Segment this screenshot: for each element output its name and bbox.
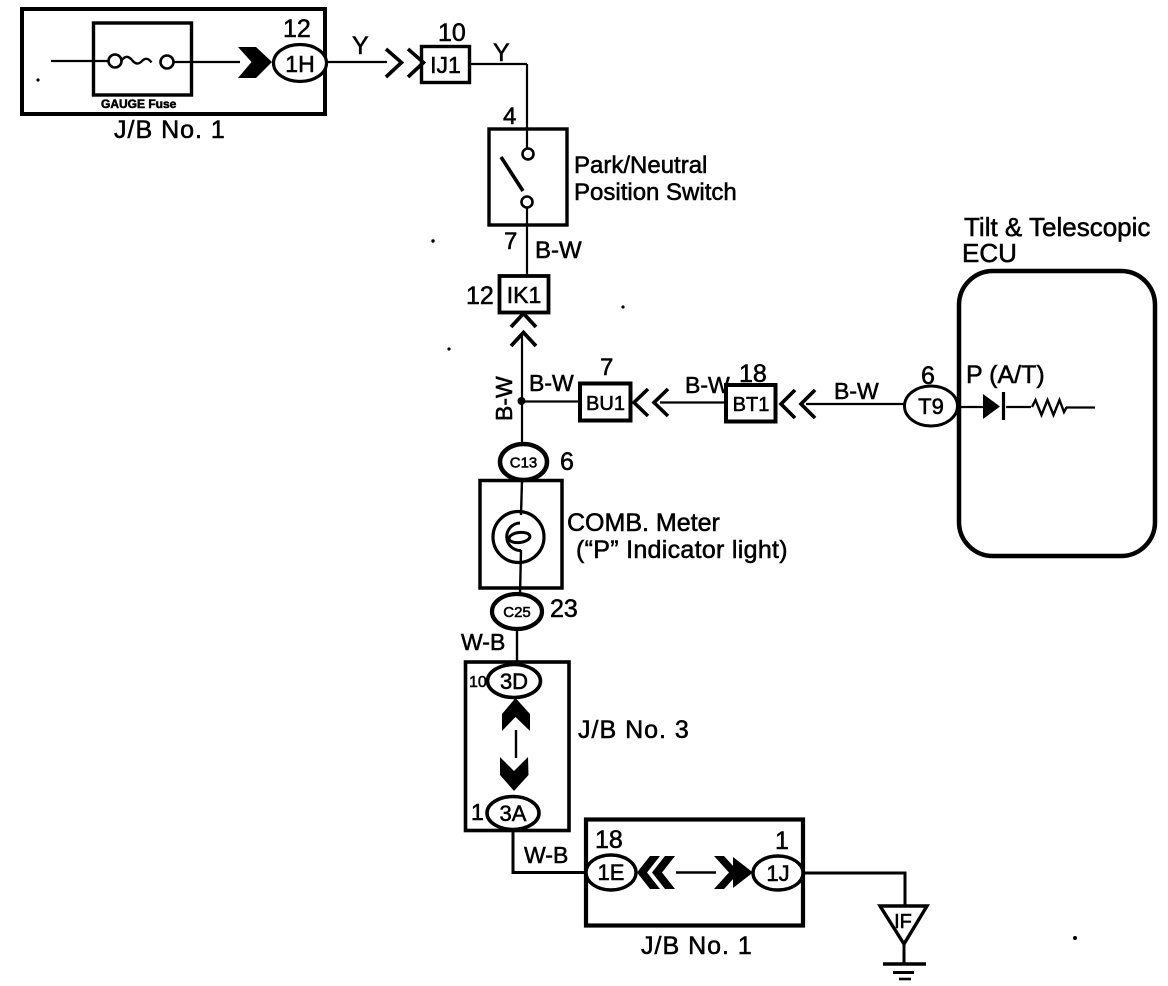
svg-text:23: 23 <box>550 595 578 623</box>
connector IK1 <box>500 276 549 313</box>
svg-text:12: 12 <box>283 15 311 43</box>
wire 1E to 1J <box>676 871 716 874</box>
ECU Tilt & Telescopic box <box>959 271 1155 556</box>
svg-text:P (A/T): P (A/T) <box>966 361 1045 389</box>
wire into bulb <box>521 480 522 515</box>
svg-text:10: 10 <box>438 19 466 47</box>
svg-text:W-B: W-B <box>524 842 568 868</box>
wire IJ1 to corner <box>470 63 527 65</box>
arrow down (inside J/B No.3) <box>500 757 529 791</box>
ground bars <box>883 962 926 966</box>
wire into fuse <box>51 60 109 62</box>
svg-text:C13: C13 <box>510 455 538 472</box>
svg-text:(“P” Indicator light): (“P” Indicator light) <box>576 536 788 564</box>
wire C25 to 3D <box>516 629 518 666</box>
svg-text:1E: 1E <box>598 860 625 885</box>
junction block J/B No. 1 (bottom) <box>586 820 803 926</box>
connector 1J <box>753 856 803 890</box>
solid arrow right (to 1J) <box>714 856 739 889</box>
connector C13 <box>500 444 547 480</box>
wire fuse to arrow <box>174 61 241 63</box>
connector 1H <box>274 45 327 82</box>
resistor (in ECU) <box>1032 400 1067 415</box>
connector BU1 <box>580 384 631 421</box>
svg-text:J/B No. 1: J/B No. 1 <box>641 932 753 960</box>
connector T9 <box>905 386 958 426</box>
svg-text:4: 4 <box>503 103 516 130</box>
wire resistor end <box>1066 406 1095 408</box>
diode (in ECU) <box>983 394 1000 419</box>
connector IJ1 <box>422 47 470 83</box>
svg-text:Y: Y <box>352 32 369 60</box>
junction block J/B No. 3 <box>466 662 570 831</box>
svg-text:1: 1 <box>471 799 484 825</box>
solid double chevron left (after 1E) <box>637 856 660 889</box>
connector BT1 <box>726 385 776 422</box>
svg-text:Park/Neutral: Park/Neutral <box>574 152 707 179</box>
svg-text:B-W: B-W <box>535 237 582 264</box>
svg-text:10: 10 <box>469 674 487 691</box>
wire 1H to chevrons, label Y <box>327 61 387 63</box>
wire 3A to J/B No.1, label W-B <box>513 830 586 873</box>
chevron pair (right of BU1) <box>634 389 668 416</box>
svg-text:J/B No. 1: J/B No. 1 <box>114 116 226 144</box>
connector C25 <box>492 594 542 629</box>
chevron pair (to IJ1) <box>386 49 424 77</box>
svg-text:7: 7 <box>504 228 517 255</box>
wire switch to IK1, label B-W <box>526 208 528 276</box>
park/neutral position switch box <box>489 129 567 225</box>
svg-text:BU1: BU1 <box>586 393 625 415</box>
wire diode to resistor <box>1006 406 1031 408</box>
svg-text:IF: IF <box>894 911 912 933</box>
svg-text:T9: T9 <box>918 394 944 419</box>
wire between arrows <box>515 730 517 758</box>
ground connector IF <box>880 906 927 944</box>
svg-text:B-W: B-W <box>529 370 574 396</box>
node junction <box>518 397 526 405</box>
wire bulb to C25 <box>520 550 521 595</box>
svg-text:1: 1 <box>775 827 789 855</box>
connector 3D <box>488 665 541 698</box>
switch bottom contact <box>522 197 533 208</box>
COMB. meter box <box>480 481 562 589</box>
svg-text:J/B No. 3: J/B No. 3 <box>578 716 690 744</box>
arrow up (inside J/B No.3) <box>502 698 530 731</box>
svg-text:B-W: B-W <box>491 376 517 421</box>
wire T9 to diode <box>957 406 983 408</box>
svg-text:6: 6 <box>560 448 574 476</box>
svg-text:BT1: BT1 <box>733 394 770 416</box>
connector 1E <box>586 855 636 890</box>
svg-text:IJ1: IJ1 <box>430 52 461 78</box>
scan specks <box>36 78 39 81</box>
switch lever <box>501 157 523 191</box>
svg-text:C25: C25 <box>503 604 531 621</box>
svg-text:1H: 1H <box>285 51 314 77</box>
switch top contact <box>523 149 534 160</box>
svg-text:COMB. Meter: COMB. Meter <box>567 509 720 537</box>
svg-text:B-W: B-W <box>685 372 730 398</box>
connector 3A <box>487 797 539 830</box>
svg-text:W-B: W-B <box>461 629 505 655</box>
svg-text:18: 18 <box>595 826 623 854</box>
svg-text:ECU: ECU <box>962 238 1017 268</box>
wire down to switch <box>526 64 528 149</box>
wire junction to BU1 <box>521 400 580 402</box>
indicator bulb (P) <box>493 512 544 563</box>
fuse GAUGE box <box>94 23 192 95</box>
connector chevrons below IK1 <box>511 314 536 347</box>
svg-text:IK1: IK1 <box>507 282 542 308</box>
svg-text:3A: 3A <box>500 801 527 826</box>
svg-text:GAUGE Fuse: GAUGE Fuse <box>101 97 177 111</box>
arrow (solid, to 1H) <box>238 47 272 78</box>
svg-text:1J: 1J <box>766 861 789 886</box>
fuse GAUGE symbol <box>109 55 174 69</box>
wire BU1 to BT1 <box>660 401 726 403</box>
svg-text:7: 7 <box>600 354 613 381</box>
ground stem <box>903 942 906 964</box>
svg-text:3D: 3D <box>500 669 528 694</box>
svg-text:12: 12 <box>466 282 494 310</box>
svg-text:Position Switch: Position Switch <box>574 179 737 206</box>
chevron pair (right of BT1) <box>781 390 815 418</box>
wire BT1 to T9 <box>806 403 905 405</box>
wire 1J to ground <box>803 873 905 907</box>
svg-text:Y: Y <box>493 39 510 67</box>
wire IK1 to C13 through junction <box>521 334 523 445</box>
junction block J/B No. 1 (top) <box>22 9 325 114</box>
svg-text:B-W: B-W <box>834 378 879 404</box>
